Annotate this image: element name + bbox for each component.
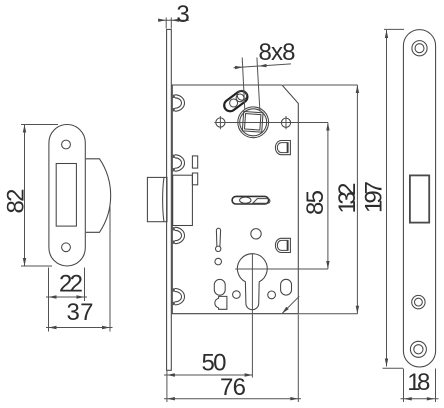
oval hole right	[281, 279, 292, 295]
dimension 3 line	[158, 19, 189, 21]
spring lever	[216, 228, 221, 251]
dimension 18 extension lines	[403, 369, 405, 403]
8x8 leader extension line right	[257, 58, 260, 112]
stop slider slot	[232, 196, 270, 204]
dimension 197 line	[386, 30, 388, 367]
svg-text:132: 132	[334, 183, 361, 214]
lock body outline	[172, 85, 298, 314]
body top extension line	[283, 84, 358, 86]
small circle right of cylinder	[268, 291, 276, 299]
strike plate lip	[86, 159, 111, 233]
cover plate bottom screw hole	[410, 341, 426, 357]
dimension 3 extension lines	[165, 18, 167, 29]
svg-text:22: 22	[59, 271, 83, 298]
cover plate latch window	[410, 175, 429, 222]
svg-text:50: 50	[202, 349, 227, 376]
fixing lug 4	[172, 288, 185, 305]
oval hole left	[214, 279, 225, 295]
svg-text:82: 82	[2, 189, 29, 214]
spindle follower inner circle	[240, 109, 267, 136]
dimension 82 line	[24, 125, 26, 267]
cylinder horizontal center line to 85 dim	[235, 268, 328, 270]
stepped hole bottom left	[215, 296, 227, 309]
dimension 82 extension lines	[21, 124, 58, 126]
right screw boss	[281, 116, 290, 129]
svg-text:3: 3	[176, 1, 189, 28]
latch bolt body	[173, 175, 193, 225]
spindle follower outer circle	[238, 107, 269, 138]
spindle square hole 8x8	[242, 111, 263, 132]
cylinder vertical center line	[251, 254, 253, 378]
8x8 dimension line	[234, 64, 292, 68]
spindle center extension line to 85 dim	[214, 122, 328, 124]
svg-text:8x8: 8x8	[259, 39, 296, 66]
faceplate (side view)	[167, 29, 172, 370]
strike plate latch cutout	[56, 164, 76, 227]
small rectangle hole upper	[192, 156, 197, 168]
small circle left of cylinder	[233, 291, 241, 299]
dimension 50 line	[164, 374, 253, 376]
svg-text:18: 18	[407, 369, 430, 396]
dimension 22 line	[46, 296, 87, 298]
strike plate bottom screw hole	[62, 243, 71, 252]
svg-text:76: 76	[220, 374, 246, 401]
8x8 leader extension line left	[242, 58, 245, 111]
fixing lug 2	[172, 155, 185, 172]
latch follower lever	[222, 89, 250, 114]
latch bolt bevel curve	[163, 178, 164, 222]
strike plate outline	[49, 125, 85, 267]
cover plate outline	[403, 30, 435, 367]
small rectangle hole lower	[192, 173, 197, 185]
dimension 76 extension lines	[166, 371, 168, 403]
dimension 197 extension lines	[384, 28, 404, 30]
euro cylinder hole	[237, 254, 267, 310]
corner leader arrow	[282, 296, 299, 313]
svg-text:85: 85	[302, 190, 329, 215]
fixing lug 3	[172, 227, 185, 244]
D-shaped hole upper	[275, 141, 290, 155]
cover plate middle screw hole	[412, 295, 425, 308]
svg-text:37: 37	[67, 299, 94, 326]
strike plate top screw hole	[62, 140, 71, 149]
dimension 37 extension line	[109, 206, 111, 332]
dimension 22 extension lines	[48, 268, 50, 332]
svg-text:197: 197	[361, 181, 388, 213]
latch bolt front	[147, 177, 167, 221]
dimension 132 line	[356, 85, 358, 314]
dimension 18 line	[401, 398, 439, 400]
dimension 85 line	[327, 123, 329, 270]
fixing lug 1	[172, 95, 185, 112]
dimension 37 line	[46, 327, 113, 329]
dimension 76 line	[164, 398, 301, 400]
left screw boss	[216, 116, 225, 129]
cover plate top screw hole	[412, 41, 427, 56]
D-shaped hole lower	[275, 238, 290, 252]
body bottom extension line	[299, 313, 358, 315]
circle above cylinder	[251, 229, 261, 239]
small circle below spring	[215, 258, 222, 265]
